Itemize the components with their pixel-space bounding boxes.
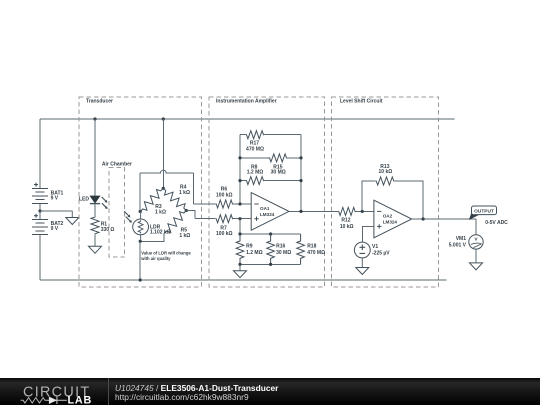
svg-text:470 MΩ: 470 MΩ	[307, 250, 325, 256]
logo resistor-diode glyph	[21, 397, 67, 404]
resistor R17	[240, 131, 301, 139]
svg-text:with air quality: with air quality	[140, 256, 171, 261]
svg-text:9 V: 9 V	[51, 196, 59, 202]
box Level Shift Circuit section	[332, 97, 439, 287]
wire bridge left column	[139, 173, 141, 212]
label R3 value	[155, 204, 166, 216]
wire OA2 noninverting input to V1	[362, 226, 374, 242]
svg-text:1 kΩ: 1 kΩ	[179, 233, 190, 239]
svg-text:100 kΩ: 100 kΩ	[216, 231, 233, 237]
label R15 value	[271, 165, 286, 176]
resistor R1	[91, 217, 99, 235]
svg-text:R12: R12	[341, 218, 350, 224]
svg-text:LED: LED	[79, 197, 89, 203]
label R16 value	[276, 243, 291, 256]
label R4 value	[179, 184, 190, 196]
svg-text:OA1: OA1	[260, 206, 270, 211]
note LDR behaviour	[140, 251, 191, 261]
node R15 row left junction	[238, 156, 241, 159]
svg-text:10 kΩ: 10 kΩ	[379, 169, 393, 175]
wire R13 feedback loop	[362, 181, 423, 219]
resistor R3	[140, 188, 163, 211]
box Transducer section	[79, 97, 201, 287]
logo LAB wordmark	[68, 394, 93, 405]
svg-text:R18: R18	[307, 243, 316, 249]
battery BAT2	[32, 214, 48, 235]
label LDR value	[150, 224, 171, 235]
flag OUTPUT	[469, 206, 497, 220]
wire top supply bus	[40, 118, 454, 120]
ground below V1	[356, 258, 369, 275]
label LED	[79, 197, 89, 203]
svg-text:1 kΩ: 1 kΩ	[179, 190, 190, 196]
photoresistor LDR	[133, 212, 149, 242]
resistor R7	[195, 215, 251, 223]
svg-text:Transducer: Transducer	[86, 99, 113, 105]
node R15 row right junction	[299, 156, 302, 159]
node OA1 inverting input junction	[238, 202, 241, 205]
label R13 value	[379, 164, 393, 175]
svg-text:30 MΩ: 30 MΩ	[276, 250, 291, 256]
label R7 value	[216, 225, 233, 237]
LDR incident light arrows	[124, 211, 132, 223]
logo CIRCUIT wordmark	[23, 385, 90, 401]
wire noninverting bias top row	[240, 219, 301, 234]
node bridge-return bus junction	[139, 278, 142, 281]
LED emitted light arrows	[102, 197, 108, 209]
voltage source V1	[354, 242, 370, 258]
svg-text:R9: R9	[246, 243, 253, 249]
svg-text:30 MΩ: 30 MΩ	[271, 170, 286, 176]
wire bridge left-output horizontal with hop	[140, 170, 194, 173]
banner title line	[115, 383, 279, 393]
svg-text:9 V: 9 V	[51, 226, 59, 232]
svg-text:1.2 MΩ: 1.2 MΩ	[246, 250, 263, 256]
svg-text:1.2 MΩ: 1.2 MΩ	[247, 170, 264, 176]
node R8 row right junction	[299, 179, 302, 182]
banner separator	[108, 378, 110, 405]
svg-text:5.001 V: 5.001 V	[449, 243, 467, 249]
svg-text:1 kΩ: 1 kΩ	[155, 209, 166, 215]
label Air Chamber	[102, 161, 132, 167]
node bridge right vertex	[185, 209, 188, 212]
ground below VM1	[470, 249, 483, 270]
op-amp OA1	[251, 193, 289, 231]
wire feedback right column	[300, 135, 302, 212]
voltmeter VM1	[469, 235, 483, 249]
wire LED cathode to R1	[94, 204, 96, 217]
node top bus / bridge branch junction	[162, 117, 165, 120]
svg-text:Instrumentation Amplifier: Instrumentation Amplifier	[216, 99, 277, 105]
banner background bar	[0, 378, 540, 405]
svg-text:LM324: LM324	[260, 212, 275, 217]
svg-text:470 MΩ: 470 MΩ	[246, 147, 264, 153]
resistor R8	[240, 177, 301, 185]
svg-text:OUTPUT: OUTPUT	[474, 209, 494, 215]
wire bridge right output to R7 row	[186, 211, 195, 219]
svg-text:Air Chamber: Air Chamber	[102, 161, 132, 167]
wire output node to voltmeter	[475, 219, 477, 235]
resistor R9	[236, 234, 244, 264]
op-amp OA2	[374, 200, 412, 238]
label Transducer	[86, 99, 113, 105]
label R18 value	[307, 243, 325, 256]
wire bridge left output drop to R6 row	[193, 173, 195, 204]
label R8 value	[247, 165, 264, 176]
resistor R12	[338, 207, 355, 215]
wire battery positive lead	[39, 119, 41, 188]
node bias top row R16 junction	[269, 232, 272, 235]
label R6 value	[216, 187, 233, 199]
wire BAT1 negative to mid node	[39, 204, 41, 212]
svg-text:LM324: LM324	[383, 219, 398, 224]
label R1 value	[101, 222, 115, 233]
node top bus / LED branch junction	[93, 117, 96, 120]
svg-text:10 kΩ: 10 kΩ	[340, 224, 354, 230]
resistor R13	[376, 177, 395, 185]
wire bias bottom row	[240, 263, 301, 265]
node R8 row left junction	[238, 179, 241, 182]
resistor R4	[163, 188, 186, 210]
wire mid node to ground	[40, 210, 72, 212]
svg-text:Level Shift Circuit: Level Shift Circuit	[340, 99, 383, 105]
resistor R5	[164, 211, 186, 234]
wire OA1 output row to R12	[289, 210, 374, 212]
label BAT1 value	[51, 190, 64, 201]
box Instrumentation Amplifier section	[209, 97, 324, 287]
wire R5 bottom to bridge bottom node	[140, 234, 164, 242]
node OA1 output / feedback junction	[299, 210, 302, 213]
node OA2 inverting input junction	[361, 210, 364, 213]
svg-text:R16: R16	[276, 243, 285, 249]
label OA1 name	[260, 206, 275, 217]
node battery midpoint junction	[38, 209, 41, 212]
ground in-amp bias network	[234, 264, 247, 277]
node bias top row R9 junction	[238, 232, 241, 235]
svg-text:OA2: OA2	[383, 213, 393, 218]
wire bottom return bus	[40, 279, 446, 281]
battery BAT1	[32, 183, 48, 204]
wire BAT2 negative down to bottom bus	[39, 235, 41, 280]
label R9 value	[246, 243, 263, 256]
resistor R15	[240, 154, 301, 162]
resistor R18	[297, 234, 305, 264]
label Level Shift Circuit	[340, 99, 383, 105]
svg-text:VM1: VM1	[456, 236, 467, 242]
box Air Chamber	[109, 167, 125, 257]
label V1 value	[372, 244, 390, 256]
label VM1 value	[449, 236, 467, 249]
label Instrumentation Amplifier	[216, 99, 277, 105]
svg-text:330 Ω: 330 Ω	[101, 227, 115, 233]
label ADC note	[485, 220, 508, 226]
wire bridge bottom to return bus	[139, 241, 141, 280]
svg-text:LAB: LAB	[68, 394, 93, 405]
label BAT2 value	[51, 221, 64, 232]
ground battery midpoint	[66, 211, 79, 225]
node bridge left vertex	[139, 210, 142, 213]
node OA2 output / feedback junction	[422, 217, 425, 220]
svg-text:1.102 kΩ: 1.102 kΩ	[150, 230, 171, 236]
label OA2 name	[383, 213, 398, 224]
node OA1 noninverting input junction	[238, 217, 241, 220]
node bias bottom row R16 junction	[269, 263, 272, 266]
svg-text:0-5V ADC: 0-5V ADC	[485, 220, 508, 226]
svg-text:100 kΩ: 100 kΩ	[216, 192, 233, 198]
label R17 value	[246, 141, 264, 153]
LED D1	[90, 196, 100, 204]
wire mid node to BAT2	[39, 211, 41, 219]
resistor R6	[194, 200, 252, 208]
node bias bottom row R9 junction	[238, 263, 241, 266]
svg-text:V1: V1	[372, 244, 378, 250]
svg-text:http://circuitlab.com/c62hk9w8: http://circuitlab.com/c62hk9w883nr9	[115, 392, 249, 402]
svg-text:Value of LDR will change: Value of LDR will change	[141, 251, 191, 256]
banner url line	[115, 392, 249, 402]
ground below R1	[89, 234, 102, 253]
wire OA2 output to output node	[412, 218, 476, 220]
svg-text:-225 µV: -225 µV	[372, 250, 390, 256]
label R12 value	[340, 218, 354, 230]
label R5 value	[179, 228, 190, 239]
wire feedback left column	[239, 135, 241, 204]
resistor R16	[267, 234, 275, 264]
node bridge bottom junction	[139, 240, 142, 243]
node bridge top vertex	[162, 187, 165, 190]
wire bridge supply drop	[162, 119, 164, 188]
wire LED anode from top bus	[94, 119, 96, 196]
